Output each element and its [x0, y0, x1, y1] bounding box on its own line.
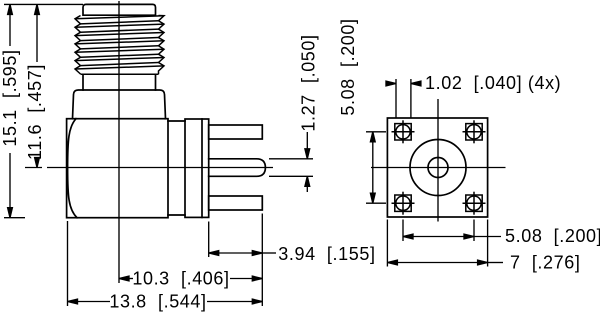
- svg-text:10.3 [.406]: 10.3 [.406]: [132, 269, 229, 289]
- svg-text:5.08 [.200]: 5.08 [.200]: [505, 226, 600, 246]
- svg-text:11.6 [.457]: 11.6 [.457]: [25, 64, 45, 160]
- svg-text:7 [.276]: 7 [.276]: [510, 252, 580, 272]
- svg-text:15.1 [.595]: 15.1 [.595]: [0, 49, 20, 146]
- svg-text:3.94 [.155]: 3.94 [.155]: [278, 244, 375, 264]
- svg-text:1.02 [.040] (4x): 1.02 [.040] (4x): [425, 73, 561, 93]
- svg-text:5.08 [.200]: 5.08 [.200]: [338, 18, 358, 115]
- svg-text:1.27 [.050]: 1.27 [.050]: [299, 34, 319, 131]
- svg-text:13.8 [.544]: 13.8 [.544]: [109, 291, 206, 311]
